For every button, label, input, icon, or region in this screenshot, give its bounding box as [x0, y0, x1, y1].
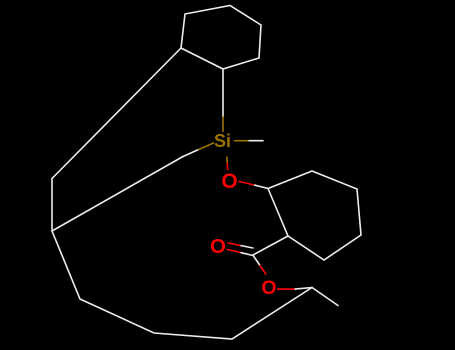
wire D2 long diagonal to Si left carbon: [52, 157, 183, 232]
CH to methyl: [312, 288, 338, 306]
ester O to CH red half: [278, 288, 295, 290]
bottom chain: [52, 231, 312, 339]
carbonyl C=O upper line white half: [241, 246, 253, 248]
carbonyl C=O upper line red half: [228, 243, 241, 246]
svg-text:O: O: [221, 170, 237, 193]
Si right methyl white half: [249, 140, 263, 142]
svg-text:O: O: [261, 277, 276, 299]
right cyclohexane ring: [268, 171, 361, 260]
carbonyl C=O lower line red half: [227, 249, 241, 252]
ester O to carbonyl C red half: [259, 265, 266, 275]
carbonyl C=O lower line white half: [241, 253, 253, 256]
Si left bond white half: [183, 150, 198, 157]
wire D1 long diagonal: [52, 48, 181, 179]
top cyclohexane ring: [181, 6, 261, 70]
Si-O bond olive half: [226, 157, 228, 164]
C2 to carbonyl C: [253, 236, 288, 255]
ester O to CH white half: [295, 288, 312, 290]
svg-text:Si: Si: [214, 131, 231, 151]
ester O to carbonyl C white half: [253, 255, 259, 264]
svg-text:O: O: [210, 235, 226, 258]
Si left bond olive stub: [198, 143, 214, 150]
Si-O bond red half: [226, 164, 228, 170]
wire ring C to Si vertical (white part): [222, 69, 224, 117]
Si right methyl olive stub: [235, 140, 250, 142]
ether O to C1 red half: [239, 181, 255, 185]
Si up bond olive stub: [222, 117, 224, 132]
ether O to C1 white half: [255, 185, 268, 188]
wire vertical left: [51, 179, 53, 232]
